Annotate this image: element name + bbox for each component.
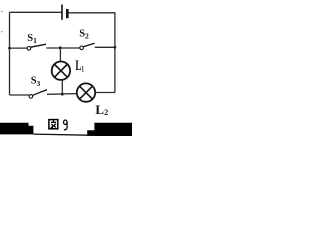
switch S3	[29, 90, 47, 99]
wire bottom middle segment	[47, 93, 77, 96]
battery	[62, 5, 67, 20]
caption box bottom rule	[33, 134, 94, 135]
wire lamp L1 top lead	[59, 48, 61, 61]
switch S1	[27, 44, 46, 50]
wire bottom left segment	[10, 94, 30, 96]
lamp L1	[52, 61, 70, 79]
caption box black bar left	[0, 123, 33, 135]
node junction right row2	[114, 46, 117, 49]
node junction lamp L1 top	[59, 46, 62, 49]
wire lamp L2 right lead	[95, 92, 115, 94]
lamp L2	[77, 83, 95, 101]
caption box black bar right	[87, 123, 132, 136]
wire right vertical	[114, 12, 116, 92]
wire left vertical	[9, 12, 11, 95]
wire row2 middle segment	[46, 47, 79, 49]
speck top-left margin	[1, 11, 2, 12]
wire top-right horizontal	[68, 12, 116, 14]
node junction left row2	[8, 47, 11, 50]
switch S2	[80, 43, 95, 49]
wire lamp L1 bottom lead	[61, 79, 63, 94]
speck left margin	[1, 31, 2, 32]
wire row2 right segment	[95, 46, 115, 48]
caption text 图 9	[49, 120, 67, 130]
node junction lamp L1 bottom	[61, 93, 64, 96]
wire row2 left segment	[10, 47, 28, 49]
wire top-left horizontal	[10, 11, 63, 13]
